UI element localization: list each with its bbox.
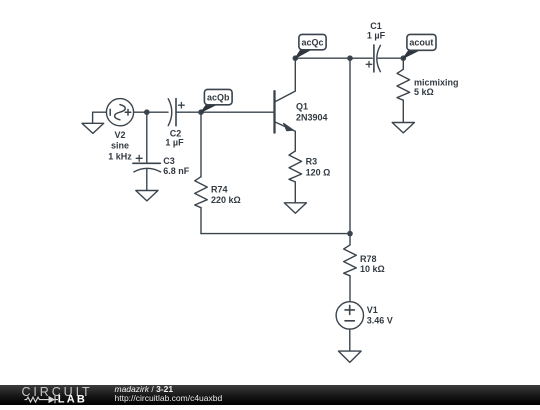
svg-text:120 Ω: 120 Ω <box>306 167 331 177</box>
node dot acout <box>401 55 407 61</box>
voltage source V1 <box>336 302 363 329</box>
svg-text:3.46 V: 3.46 V <box>367 315 393 325</box>
node dot J3 (top junction) <box>347 55 353 61</box>
wire C1 to acout node <box>378 57 403 59</box>
svg-text:C1: C1 <box>370 21 382 31</box>
svg-text:acQb: acQb <box>207 92 230 102</box>
wire collector node to right junction <box>295 57 350 59</box>
footer bar <box>0 385 540 405</box>
wire V2 to node <box>134 111 147 113</box>
wire C2 to node acQb <box>176 111 201 113</box>
flag acQb <box>201 89 232 112</box>
svg-text:Q1: Q1 <box>296 102 308 112</box>
wire V1 to ground <box>349 329 351 351</box>
svg-text:R78: R78 <box>360 254 377 264</box>
resistor R3 <box>289 151 302 203</box>
svg-text:acQc: acQc <box>301 37 323 47</box>
capacitor C2 <box>168 99 184 126</box>
svg-text:R3: R3 <box>306 157 318 167</box>
svg-text:220 kΩ: 220 kΩ <box>211 195 241 205</box>
footer text url <box>115 393 223 403</box>
svg-text:R74: R74 <box>211 184 228 194</box>
svg-text:sine: sine <box>111 140 129 150</box>
node dot acQb <box>198 109 204 115</box>
capacitor C3 <box>133 155 161 172</box>
node junction dots <box>144 55 406 236</box>
ground GND2 (below C3) <box>136 191 158 201</box>
svg-text:LAB: LAB <box>58 394 87 405</box>
node dot J4 (bottom junction) <box>347 231 353 237</box>
svg-text:6.8 nF: 6.8 nF <box>163 166 190 176</box>
transistor Q1 <box>275 58 296 151</box>
capacitor C1 <box>366 45 380 72</box>
voltage source V2 <box>106 99 133 126</box>
ground GND3 (below R3) <box>284 203 306 213</box>
svg-text:1 µF: 1 µF <box>367 31 386 41</box>
ground GND4 (below micmixing) <box>392 123 414 133</box>
svg-text:V1: V1 <box>367 305 378 315</box>
wire C3 from node down <box>146 112 148 163</box>
resistor R78 <box>344 234 357 302</box>
flag acout <box>403 34 436 58</box>
wire node to C2 <box>147 111 168 113</box>
CircuitLab logo <box>0 385 100 405</box>
resistor R74 <box>195 112 208 233</box>
svg-text:2N3904: 2N3904 <box>296 112 328 122</box>
ground GND5 (below V1) <box>339 351 362 362</box>
wire bottom horizontal <box>201 233 350 235</box>
svg-text:10 kΩ: 10 kΩ <box>360 264 385 274</box>
node dot acQc <box>293 55 299 61</box>
resistor micmixing <box>397 58 410 122</box>
svg-text:micmixing: micmixing <box>414 77 459 87</box>
wire base (acQb node to Q1) <box>201 111 273 113</box>
wire junction to C1 <box>350 57 372 59</box>
node dot J1 (V2/C2/C3) <box>144 109 150 115</box>
svg-text:5 kΩ: 5 kΩ <box>414 87 434 97</box>
svg-text:1 kHz: 1 kHz <box>108 151 132 161</box>
footer text author <box>115 384 174 394</box>
ground GND1 (left of V2) <box>82 112 106 133</box>
wire C3 to ground <box>146 169 148 191</box>
svg-text:C3: C3 <box>163 156 175 166</box>
long vertical wire (junction to bottom wire) <box>349 58 351 233</box>
flag acQc <box>295 34 326 58</box>
svg-text:acout: acout <box>409 38 433 48</box>
svg-text:1 µF: 1 µF <box>165 138 184 148</box>
svg-text:V2: V2 <box>114 130 125 140</box>
